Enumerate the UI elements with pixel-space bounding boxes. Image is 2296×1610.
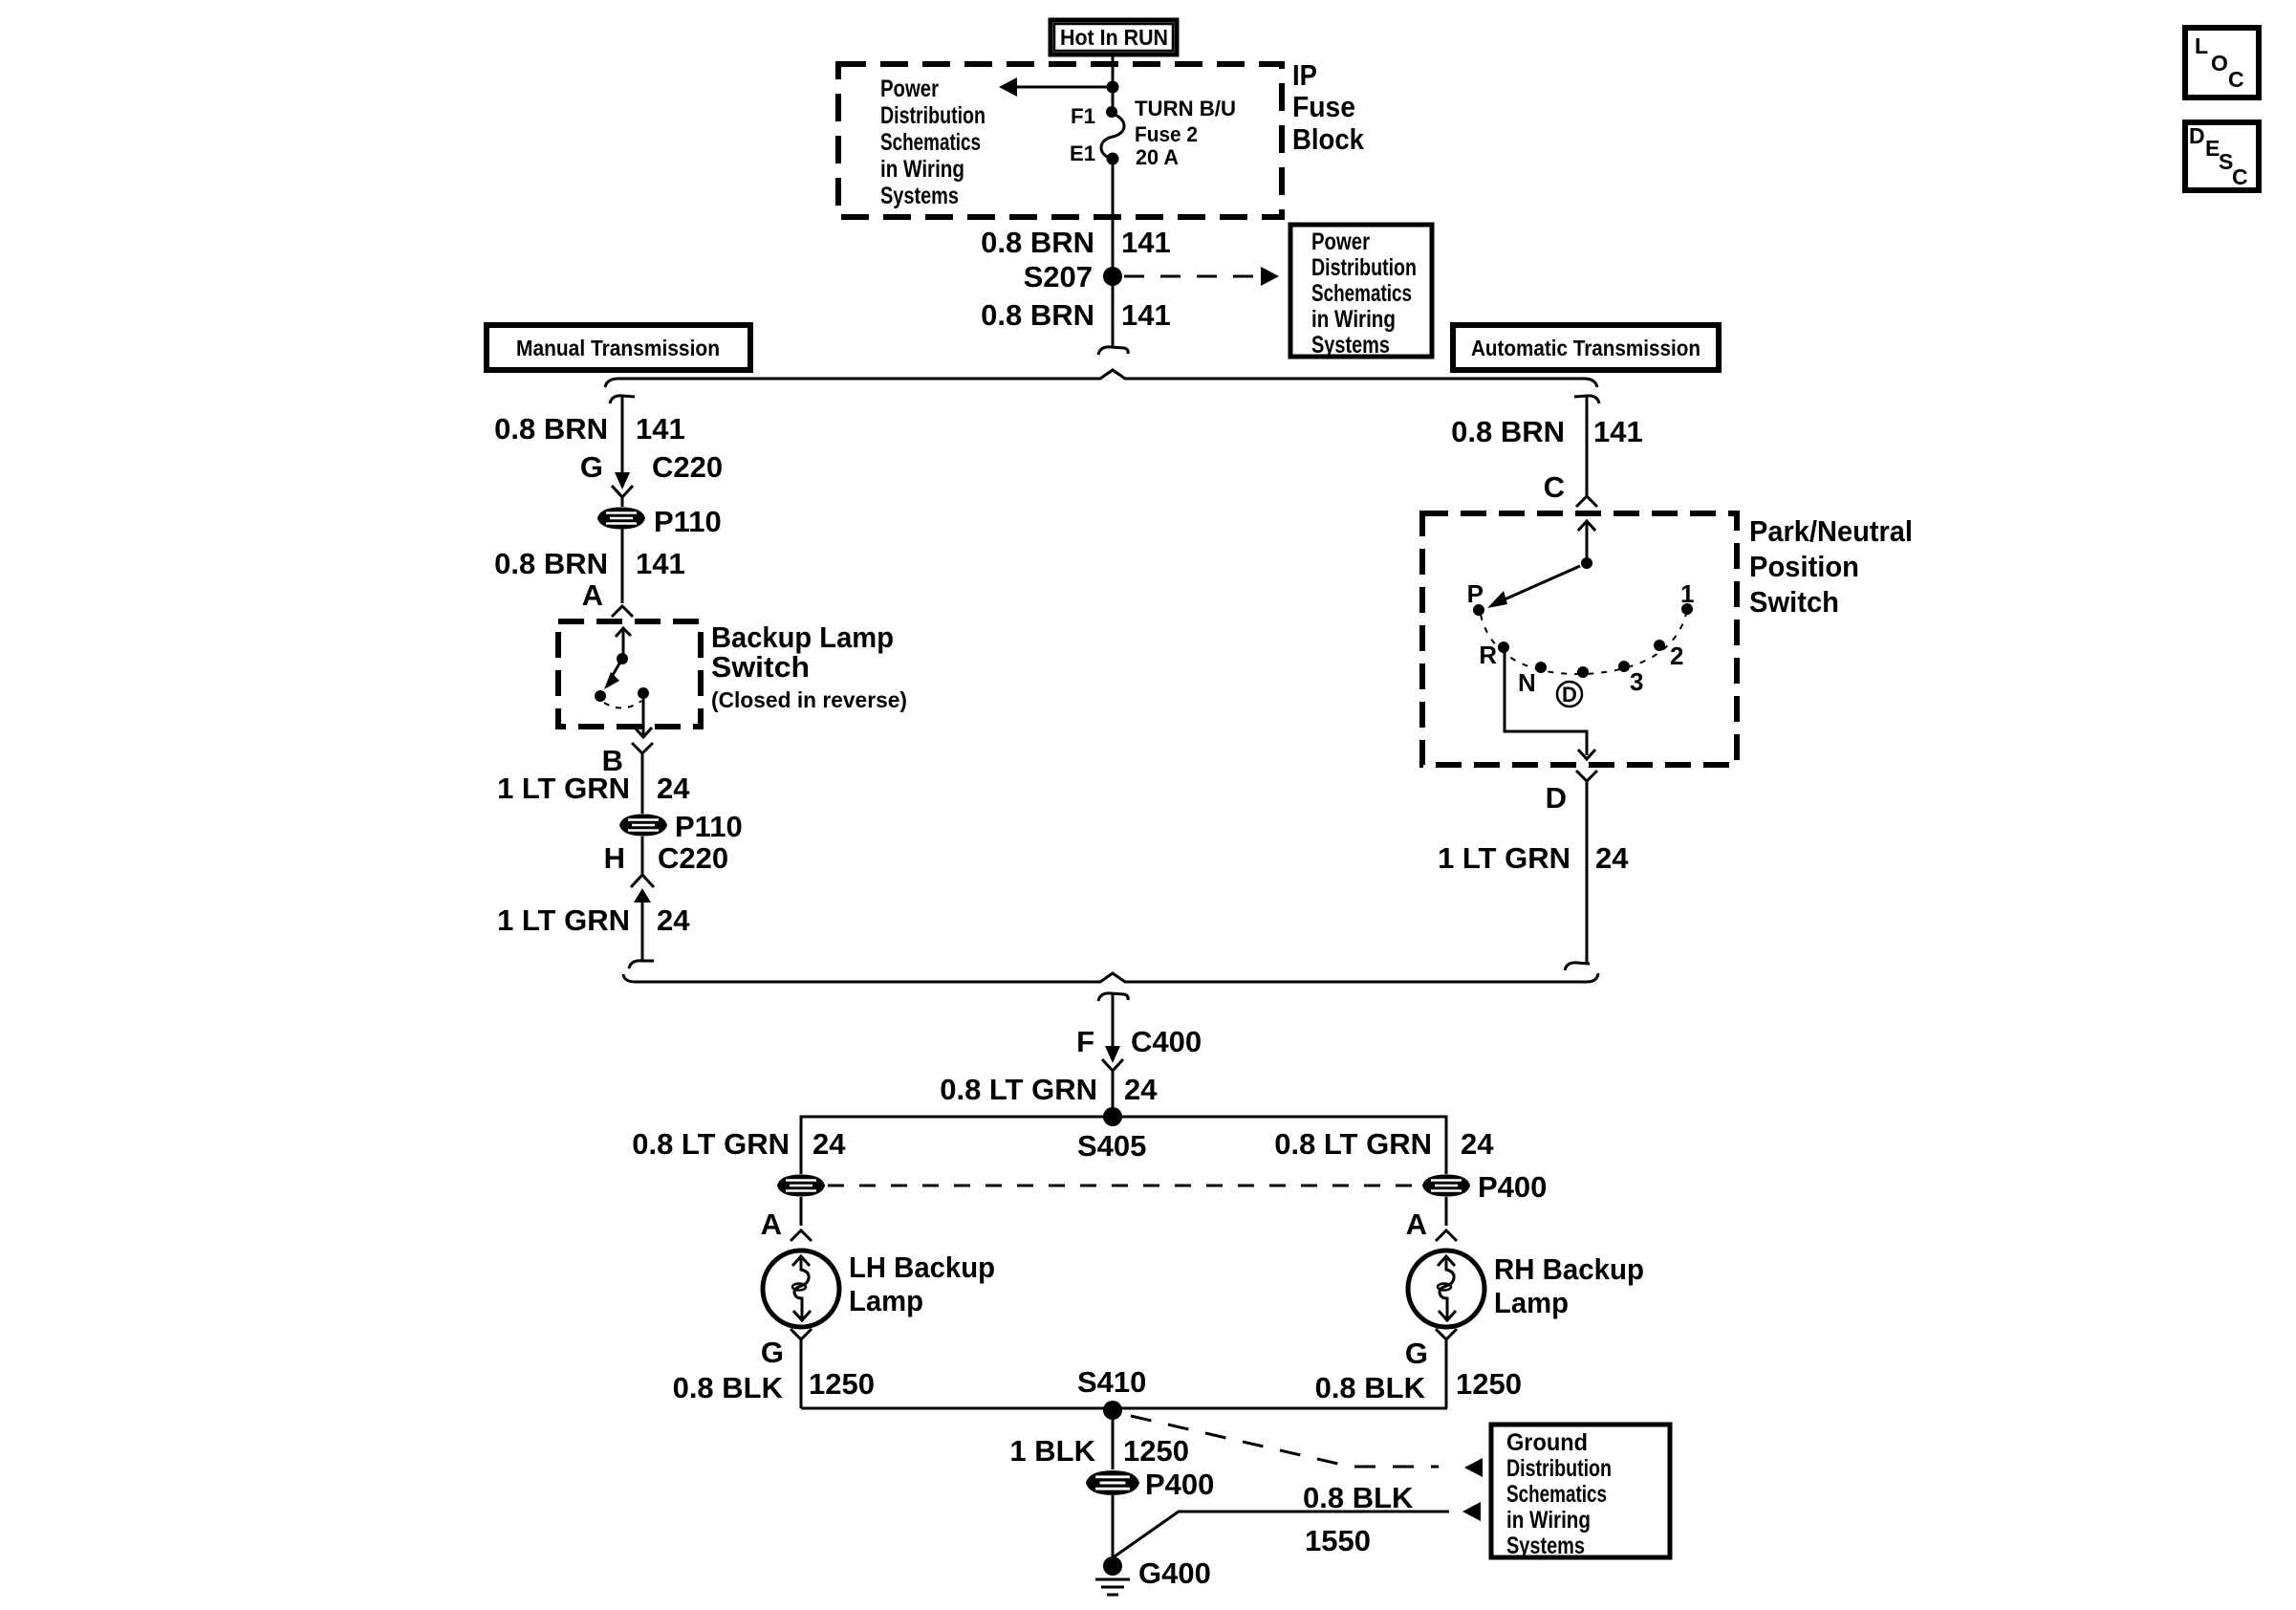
svg-text:141: 141 — [636, 547, 685, 580]
svg-text:24: 24 — [1461, 1127, 1494, 1161]
svg-text:A: A — [582, 578, 603, 612]
svg-text:Lamp: Lamp — [1494, 1286, 1569, 1319]
svg-text:Systems: Systems — [1506, 1533, 1585, 1559]
svg-text:P400: P400 — [1145, 1468, 1214, 1501]
contact R — [1498, 642, 1509, 653]
svg-text:141: 141 — [1593, 415, 1643, 448]
wire label 0.8 BRN 141 (manual branch) — [494, 412, 685, 446]
svg-text:1250: 1250 — [1123, 1434, 1189, 1468]
park/neutral position switch (dashed box) — [1422, 513, 1737, 765]
wire: manual transmission branch stub hook — [610, 396, 635, 403]
svg-text:F: F — [1076, 1025, 1094, 1058]
svg-text:Power: Power — [1311, 228, 1370, 255]
svg-text:0.8 BRN: 0.8 BRN — [1451, 415, 1565, 448]
ground G400 — [1095, 1556, 1211, 1595]
svg-text:N: N — [1518, 668, 1536, 697]
LH backup lamp — [763, 1251, 995, 1327]
arrow to Power Distribution Schematics (inside fuse block) — [999, 77, 1119, 97]
wire end hook above lamp feed bus — [629, 961, 654, 968]
svg-text:O: O — [2211, 51, 2228, 76]
label IP Fuse Block — [1292, 58, 1365, 156]
svg-text:P110: P110 — [675, 810, 743, 843]
svg-text:Switch: Switch — [1749, 585, 1839, 619]
reference box Ground Distribution Schematics in Wiring Systems — [1491, 1425, 1670, 1559]
contact 2 — [1654, 640, 1665, 651]
svg-text:R: R — [1479, 641, 1497, 669]
backup lamp switch internals — [595, 628, 652, 737]
dashed reference arrow from S207 to Power Distribution box — [1124, 267, 1279, 286]
wire label 0.8 BLK 1250 (right) — [1315, 1367, 1522, 1404]
terminal B below switch (female Y connector) — [602, 743, 653, 814]
wire: battery feed from Hot In RUN into fuse — [1112, 54, 1115, 114]
wire end hook above transmission options bus — [1098, 347, 1128, 355]
svg-text:1250: 1250 — [809, 1367, 875, 1401]
svg-text:C220: C220 — [658, 841, 728, 875]
svg-text:A: A — [1406, 1207, 1427, 1241]
svg-text:in Wiring: in Wiring — [1311, 306, 1396, 333]
svg-text:Lamp: Lamp — [849, 1284, 923, 1317]
wire to LH backup lamp terminal A — [800, 1197, 803, 1226]
svg-text:in Wiring: in Wiring — [1506, 1507, 1591, 1534]
svg-text:Schematics: Schematics — [1311, 280, 1412, 307]
dashed reference arrow from S410 to Ground Distribution box — [1131, 1416, 1483, 1477]
grommet P110 (manual branch lower) — [620, 810, 743, 843]
terminal G of RH backup lamp (female Y connector) — [1405, 1329, 1457, 1408]
wire end hook above lamp feed bus (right) — [1565, 963, 1590, 970]
contact P — [1473, 604, 1484, 616]
svg-text:Distribution: Distribution — [1311, 254, 1417, 281]
svg-text:LH Backup: LH Backup — [849, 1251, 995, 1284]
svg-text:D: D — [1546, 781, 1567, 815]
svg-text:Systems: Systems — [880, 183, 959, 209]
svg-text:in Wiring: in Wiring — [880, 156, 964, 183]
terminal A of backup lamp switch — [582, 578, 633, 617]
svg-text:1250: 1250 — [1456, 1367, 1522, 1401]
splice S410 — [1077, 1365, 1146, 1420]
wire label 0.8 LT GRN 24 (to S405) — [940, 1073, 1158, 1106]
DESC tab box — [2185, 122, 2259, 190]
wire label 0.8 BLK 1250 (left) — [673, 1367, 875, 1404]
wire 0.8 BRN 141 to C220 (manual branch) — [621, 396, 624, 475]
wire 0.8 BRN 141 from P110 to backup lamp switch — [621, 529, 624, 603]
contact 3 — [1618, 661, 1630, 672]
wire label 1 LT GRN 24 (automatic branch) — [1438, 841, 1629, 875]
svg-text:(Closed in reverse): (Closed in reverse) — [711, 687, 907, 712]
svg-text:24: 24 — [657, 903, 690, 937]
svg-text:0.8 LT GRN: 0.8 LT GRN — [1274, 1127, 1432, 1161]
connector C220 terminal H (chevron pair) — [604, 837, 729, 961]
svg-text:C400: C400 — [1131, 1025, 1202, 1058]
svg-text:24: 24 — [812, 1127, 846, 1161]
wire label 0.8 BRN 141 (automatic branch) — [1451, 415, 1643, 448]
terminal G of LH backup lamp (female Y connector) — [761, 1329, 812, 1408]
wire label 0.8 BRN 141 (below P110) — [494, 547, 685, 580]
svg-text:0.8 LT GRN: 0.8 LT GRN — [940, 1073, 1097, 1106]
grommet P400 (ground wire) — [1087, 1468, 1214, 1501]
dashed contact arc — [1481, 614, 1686, 674]
svg-text:24: 24 — [1124, 1073, 1158, 1106]
bus: S405 to both backup lamps — [801, 1117, 1446, 1174]
label Backup Lamp Switch (Closed in reverse) — [711, 620, 907, 712]
svg-text:P: P — [1467, 579, 1484, 608]
svg-text:Automatic Transmission: Automatic Transmission — [1471, 336, 1700, 360]
fuse TURN B/U Fuse 2 20 A (F1-E1) — [1070, 97, 1236, 169]
wire: automatic transmission branch stub hook — [1574, 396, 1599, 403]
bus: transmission options brace (bus 1) — [605, 370, 1597, 387]
backup lamp switch (dashed box) — [558, 621, 701, 727]
RH backup lamp — [1408, 1251, 1644, 1327]
svg-text:C: C — [2228, 67, 2244, 92]
svg-text:20 A: 20 A — [1136, 145, 1179, 169]
bus: lamp feed options brace (bus 2) — [623, 973, 1598, 982]
LOC tab box — [2185, 28, 2259, 98]
svg-text:C: C — [1544, 470, 1565, 504]
wire label 0.8 BRN 141 (below S207) — [981, 298, 1171, 332]
svg-text:3: 3 — [1630, 667, 1643, 696]
svg-text:A: A — [761, 1207, 782, 1241]
svg-text:0.8 LT GRN: 0.8 LT GRN — [632, 1127, 790, 1161]
svg-text:TURN B/U: TURN B/U — [1135, 97, 1236, 120]
contact 1 — [1681, 603, 1693, 615]
svg-text:S410: S410 — [1077, 1365, 1146, 1399]
connector C220 terminal G (male arrow into female cup) — [580, 450, 723, 507]
svg-text:F1: F1 — [1071, 104, 1095, 128]
label box Manual Transmission — [487, 325, 750, 370]
grommet P400 (right) — [1423, 1170, 1547, 1204]
svg-text:0.8 BLK: 0.8 BLK — [1315, 1371, 1426, 1404]
svg-text:Ground: Ground — [1506, 1429, 1588, 1456]
svg-text:S405: S405 — [1077, 1129, 1146, 1163]
park/neutral switch internals — [1467, 521, 1695, 759]
svg-text:RH Backup: RH Backup — [1494, 1252, 1644, 1286]
svg-text:Fuse: Fuse — [1292, 90, 1355, 123]
svg-text:C: C — [2232, 164, 2248, 189]
svg-text:141: 141 — [636, 412, 685, 446]
wire from P400 to ground G400 — [1112, 1495, 1115, 1562]
wire label 1 LT GRN 24 (bottom of manual branch) — [497, 903, 690, 937]
svg-text:Power: Power — [880, 76, 939, 102]
wire: fuse output 0.8 BRN 141 — [1112, 159, 1115, 347]
wire 0.8 BRN 141 to park/neutral switch — [1586, 396, 1589, 495]
label Park/Neutral Position Switch — [1749, 514, 1913, 619]
svg-text:0.8 BRN: 0.8 BRN — [494, 412, 608, 446]
terminal C of park/neutral position switch — [1544, 470, 1597, 507]
svg-text:Hot In RUN: Hot In RUN — [1060, 25, 1168, 50]
svg-text:Distribution: Distribution — [1506, 1455, 1612, 1482]
svg-text:1 LT GRN: 1 LT GRN — [497, 772, 630, 805]
wire to RH backup lamp terminal A — [1445, 1197, 1448, 1226]
terminal A of LH backup lamp — [761, 1207, 812, 1241]
wire to connector C400 — [1112, 994, 1115, 1052]
svg-text:1 LT GRN: 1 LT GRN — [497, 903, 630, 937]
terminal D below switch (female Y connector) — [1546, 771, 1597, 964]
contact N — [1535, 662, 1547, 673]
text Power Distribution Schematics in Wiring Systems (fuse block) — [880, 76, 986, 209]
svg-text:Backup Lamp: Backup Lamp — [711, 620, 894, 654]
svg-text:G: G — [1405, 1337, 1428, 1370]
svg-text:0.8 BLK: 0.8 BLK — [1303, 1481, 1414, 1514]
wire from contact R to terminal D — [1505, 651, 1587, 755]
wire label 1 LT GRN 24 (below switch) — [497, 772, 690, 805]
svg-text:G400: G400 — [1138, 1556, 1211, 1590]
bus: ground return S410 — [801, 1407, 1447, 1410]
svg-text:0.8 BRN: 0.8 BRN — [494, 547, 608, 580]
splice S405 — [1077, 1107, 1146, 1163]
svg-text:S207: S207 — [1024, 260, 1093, 294]
svg-text:Schematics: Schematics — [1506, 1481, 1607, 1508]
svg-text:IP: IP — [1292, 58, 1317, 92]
terminal A of RH backup lamp — [1406, 1207, 1457, 1241]
connector C400 terminal F (male arrow into female cup) — [1076, 1025, 1202, 1117]
label box Automatic Transmission — [1453, 325, 1719, 370]
svg-text:D: D — [2189, 123, 2205, 148]
svg-text:2: 2 — [1670, 642, 1683, 670]
wire label 1 BLK 1250 — [1009, 1434, 1189, 1468]
svg-text:Switch: Switch — [711, 650, 810, 684]
svg-text:D: D — [1562, 683, 1577, 707]
reference box Power Distribution Schematics in Wiring Systems — [1290, 225, 1432, 359]
svg-text:Distribution: Distribution — [880, 102, 986, 129]
svg-text:H: H — [604, 841, 625, 875]
grommet (left, on dashed P400 line) — [778, 1176, 824, 1196]
dashed line between P400 grommets — [828, 1185, 1419, 1187]
svg-text:Position: Position — [1749, 550, 1859, 583]
svg-text:1 BLK: 1 BLK — [1009, 1434, 1095, 1468]
contact D (circled) — [1577, 666, 1589, 678]
wire 1 BLK 1250 from S410 to P400 — [1112, 1410, 1115, 1469]
svg-text:Schematics: Schematics — [880, 129, 981, 156]
svg-text:0.8 BLK: 0.8 BLK — [673, 1371, 784, 1404]
svg-text:E1: E1 — [1070, 141, 1095, 165]
svg-text:Fuse 2: Fuse 2 — [1135, 122, 1198, 146]
wire stub hook below bus 2 — [1098, 993, 1128, 1001]
svg-text:1550: 1550 — [1305, 1524, 1371, 1557]
svg-text:L: L — [2195, 33, 2208, 58]
svg-text:C220: C220 — [652, 450, 723, 484]
svg-text:0.8 BRN: 0.8 BRN — [981, 226, 1094, 259]
reference wire 0.8 BLK 1550 to Ground Distribution box — [1115, 1481, 1481, 1557]
svg-text:G: G — [580, 450, 603, 484]
svg-text:141: 141 — [1121, 298, 1171, 332]
svg-text:Systems: Systems — [1311, 332, 1390, 359]
svg-text:Block: Block — [1292, 122, 1365, 156]
svg-text:G: G — [761, 1336, 784, 1369]
grommet P110 (manual branch upper) — [598, 505, 722, 538]
svg-text:Manual Transmission: Manual Transmission — [516, 336, 720, 360]
svg-text:P400: P400 — [1478, 1170, 1547, 1204]
svg-text:Park/Neutral: Park/Neutral — [1749, 514, 1913, 548]
svg-text:0.8 BRN: 0.8 BRN — [981, 298, 1094, 332]
power label box Hot In RUN — [1051, 20, 1177, 54]
wire label 0.8 BRN 141 (above S207) — [981, 226, 1171, 259]
svg-text:141: 141 — [1121, 226, 1171, 259]
svg-text:1 LT GRN: 1 LT GRN — [1438, 841, 1570, 875]
splice S207 — [1024, 260, 1122, 294]
svg-text:1: 1 — [1680, 579, 1694, 608]
wire label 0.8 LT GRN 24 (right lamp) — [1274, 1127, 1494, 1161]
svg-text:24: 24 — [657, 772, 690, 805]
wire label 0.8 LT GRN 24 (left lamp) — [632, 1127, 846, 1161]
svg-text:P110: P110 — [654, 505, 722, 538]
IP fuse block (dashed box) — [838, 64, 1282, 217]
svg-text:24: 24 — [1595, 841, 1629, 875]
